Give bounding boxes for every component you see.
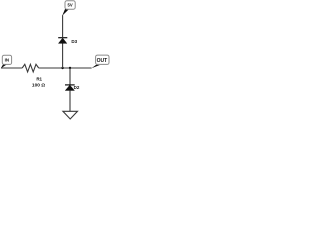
output flag OUT box [96, 55, 109, 64]
svg-text:R1: R1 [36, 76, 42, 81]
node junction to D2 [69, 67, 71, 69]
svg-text:IN: IN [5, 58, 9, 63]
diode D3 [58, 38, 67, 44]
5V flag tail [62, 9, 69, 16]
svg-text:100 Ω: 100 Ω [32, 82, 45, 88]
input flag IN box [2, 55, 11, 64]
wire R1 to OUT [39, 67, 92, 69]
wire D2 anode down to ground [69, 91, 71, 112]
wire junction down to D2 cathode [69, 68, 71, 85]
node junction to D3 [61, 67, 63, 69]
input flag IN tail [1, 64, 7, 68]
svg-text:D3: D3 [71, 39, 77, 44]
diode D2 [65, 85, 75, 91]
svg-text:OUT: OUT [97, 58, 108, 64]
wire D3 cathode up to 5V [62, 15, 64, 38]
wire junction up to D3 anode [62, 43, 64, 68]
output flag OUT tail [92, 65, 100, 69]
resistor R1 [22, 64, 39, 72]
svg-text:D2: D2 [74, 85, 80, 90]
power flag 5V box [65, 1, 75, 9]
ground [63, 111, 78, 119]
wire IN to R1 [1, 67, 22, 69]
svg-text:5V: 5V [68, 3, 73, 8]
